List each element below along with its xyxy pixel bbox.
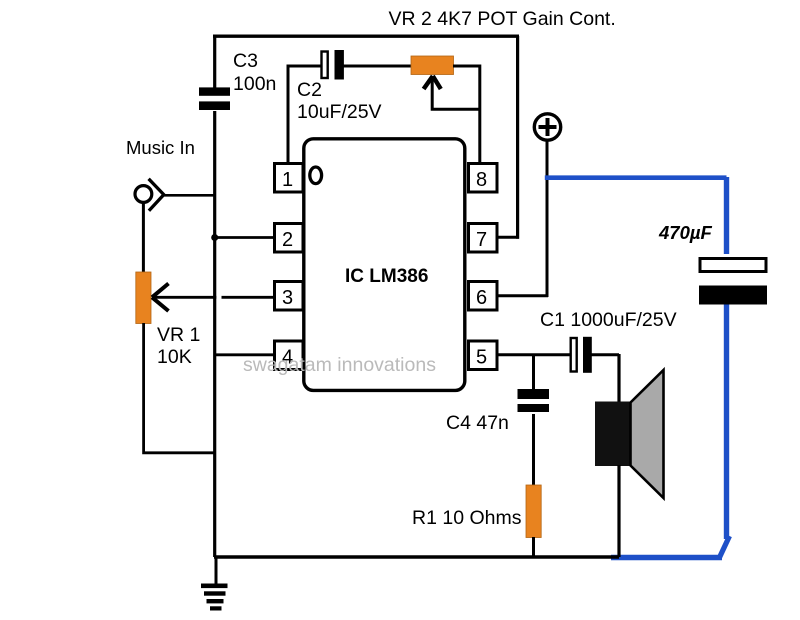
- wire R1 bottom: [532, 537, 535, 557]
- svg-text:8: 8: [476, 169, 487, 191]
- wire bottom rail: [214, 555, 619, 558]
- svg-text:10uF/25V: 10uF/25V: [297, 101, 382, 123]
- wire C2 to VR2: [343, 65, 412, 68]
- svg-text:Music In: Music In: [126, 137, 195, 158]
- svg-text:VR 2 4K7 POT Gain Cont.: VR 2 4K7 POT Gain Cont.: [389, 8, 616, 30]
- label C3 100n: [233, 50, 276, 95]
- potentiometer VR2: [411, 56, 454, 75]
- svg-text:swagatam innovations: swagatam innovations: [243, 354, 436, 376]
- svg-text:C2: C2: [297, 79, 322, 101]
- power +V symbol: [534, 114, 560, 140]
- svg-text:C4 47n: C4 47n: [446, 412, 509, 434]
- pin 4: [275, 341, 304, 370]
- pin 1 marker dot: [310, 167, 322, 184]
- wire jack to main vertical: [163, 194, 216, 197]
- wire speaker top drop: [617, 354, 620, 402]
- wire VR2 wiper arrow: [424, 76, 480, 109]
- svg-text:6: 6: [476, 287, 487, 309]
- svg-text:7: 7: [476, 229, 487, 251]
- wire pin 3 stub: [222, 296, 274, 299]
- capacitor 470uF negative plate: [699, 286, 767, 305]
- wire C4 to R1: [532, 414, 535, 486]
- svg-text:470µF: 470µF: [658, 222, 713, 243]
- wire blue right vertical upper: [724, 177, 729, 254]
- capacitor C3: [199, 87, 230, 110]
- wire C1 to speaker: [590, 353, 619, 356]
- svg-text:VR 1: VR 1: [157, 324, 200, 346]
- pin 8: [469, 164, 498, 193]
- wire blue bottom horizontal: [611, 555, 722, 561]
- wire C3 riser: [213, 36, 216, 88]
- wire pin 2 stub: [215, 236, 273, 239]
- wire pin 4 stub: [215, 353, 273, 356]
- wire blue right vertical lower: [724, 305, 729, 540]
- potentiometer VR1: [136, 272, 151, 324]
- speaker LS1: [595, 370, 664, 498]
- wire VR1 wiper arrow: [152, 284, 216, 312]
- op-amp U1 IC body: [304, 139, 465, 391]
- wire pin 6 stub: [497, 294, 548, 297]
- svg-text:10K: 10K: [157, 346, 192, 368]
- wire pin 7 stub: [497, 236, 519, 239]
- node junction pin2: [211, 234, 218, 241]
- wire C4 tap: [532, 355, 535, 389]
- wire jack down to VR1: [142, 203, 145, 274]
- svg-text:100n: 100n: [233, 73, 276, 95]
- svg-text:3: 3: [282, 287, 293, 309]
- label VR 1 10K: [157, 324, 200, 368]
- pin 1: [275, 164, 304, 193]
- wire blue corner diagonal: [719, 536, 730, 559]
- svg-text:R1 10 Ohms: R1 10 Ohms: [412, 507, 522, 529]
- capacitor C4: [518, 389, 550, 412]
- connector jack J1: [135, 179, 164, 211]
- svg-text:1: 1: [282, 169, 293, 191]
- pin 7: [469, 224, 498, 253]
- pin 3: [275, 282, 304, 311]
- pin 6: [469, 282, 498, 311]
- capacitor C2: [322, 50, 344, 80]
- wire blue top horizontal: [545, 175, 727, 180]
- wire speaker bottom drop: [617, 465, 620, 557]
- capacitor 470uF positive plate: [700, 259, 766, 272]
- ground: [201, 557, 228, 611]
- svg-text:C1 1000uF/25V: C1 1000uF/25V: [540, 309, 677, 331]
- resistor R1: [526, 485, 541, 538]
- wire supply vertical to pin 6: [546, 141, 549, 298]
- wire VR1 bottom L: [144, 323, 216, 453]
- wire main vertical: [213, 111, 216, 557]
- wire right vertical to pin 7: [516, 36, 519, 239]
- svg-text:C3: C3: [233, 50, 258, 72]
- capacitor C1: [571, 337, 592, 373]
- pin 5: [469, 341, 498, 370]
- label C2 10uF/25V: [297, 79, 382, 123]
- svg-text:5: 5: [476, 347, 487, 369]
- svg-text:2: 2: [282, 229, 293, 251]
- pin 2: [275, 224, 304, 253]
- wire VR2 right and pin 8 riser: [453, 66, 480, 164]
- wire pin 5 stub: [497, 353, 570, 356]
- svg-text:IC LM386: IC LM386: [345, 266, 428, 287]
- wire pin 1 riser: [288, 66, 321, 164]
- wire top rail: [213, 35, 519, 38]
